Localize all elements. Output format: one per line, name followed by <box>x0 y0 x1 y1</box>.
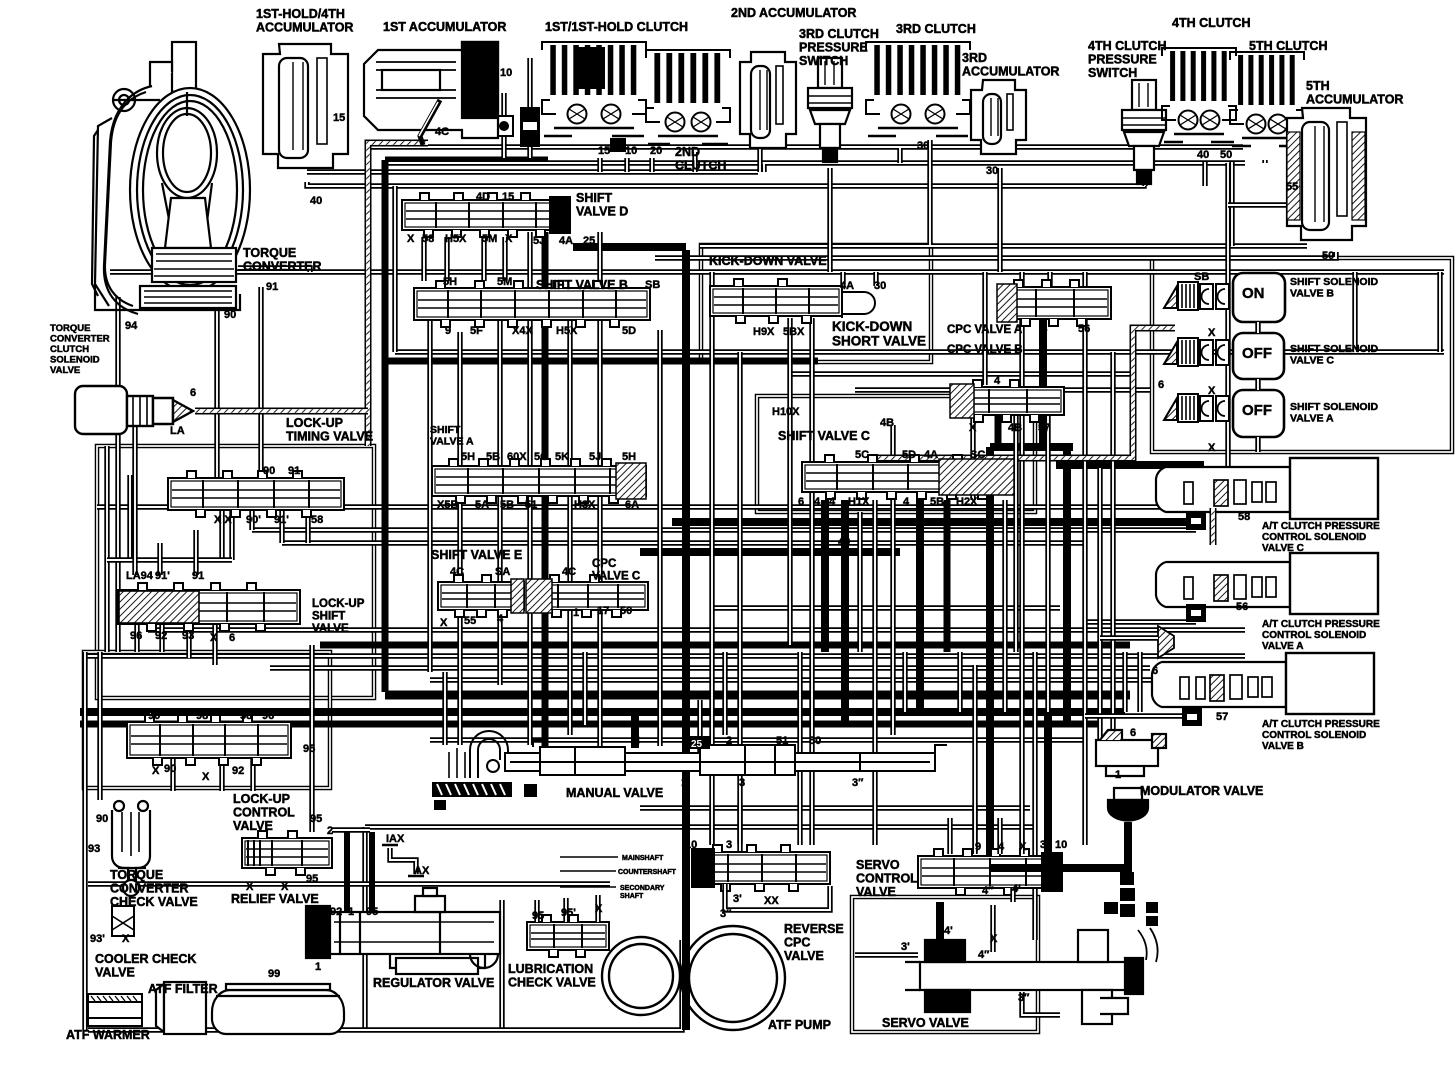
wire 6 cone link <box>1100 635 1158 640</box>
svg-text:SA: SA <box>495 566 510 578</box>
wire 5th acc y258 <box>655 252 1336 258</box>
svg-text:90: 90 <box>224 309 236 321</box>
svg-text:2: 2 <box>726 735 732 747</box>
svg-text:91: 91 <box>266 281 278 293</box>
svg-text:3RD CLUTCH: 3RD CLUTCH <box>896 22 976 36</box>
svg-text:98: 98 <box>196 710 208 722</box>
wire x395 <box>392 186 397 352</box>
lock-up shift valve <box>118 583 300 631</box>
svg-text:4: 4 <box>829 496 836 508</box>
wire y374 <box>788 371 1133 376</box>
svg-text:SB: SB <box>645 279 660 291</box>
svg-text:3″: 3″ <box>1018 992 1030 1004</box>
svg-text:MANUAL VALVE: MANUAL VALVE <box>566 786 663 800</box>
wire 57 check link <box>1085 713 1182 718</box>
svg-text:CPC VALVE A: CPC VALVE A <box>947 324 1022 336</box>
svg-text:4C: 4C <box>562 566 576 578</box>
wire x585 <box>582 652 587 725</box>
svg-text:2: 2 <box>327 825 333 837</box>
svg-text:90: 90 <box>164 763 176 775</box>
secondary shaft line <box>560 886 616 888</box>
svg-text:AX: AX <box>414 865 430 877</box>
wire luc b down <box>219 758 224 791</box>
wire reg 95 stub <box>369 832 375 912</box>
wire stub servo 10 thick <box>1044 712 1052 854</box>
shift solenoid enclosure box <box>1152 258 1452 452</box>
svg-text:3: 3 <box>739 777 745 789</box>
svg-text:X: X <box>505 233 513 245</box>
svg-text:15: 15 <box>502 191 514 203</box>
svg-text:51: 51 <box>776 735 788 747</box>
wire x460 <box>457 332 462 745</box>
svg-text:25: 25 <box>583 235 595 247</box>
svg-text:1ST-HOLD/4THACCUMULATOR: 1ST-HOLD/4THACCUMULATOR <box>256 7 353 35</box>
svg-text:H1X: H1X <box>848 496 870 508</box>
svg-text:X: X <box>440 617 448 629</box>
svg-text:58: 58 <box>240 710 252 722</box>
wire x700dn <box>697 700 702 762</box>
wire x725 <box>722 652 727 735</box>
svg-text:10: 10 <box>1055 839 1067 851</box>
svg-text:40: 40 <box>310 195 322 207</box>
wire stub 5th 50 <box>1262 160 1267 163</box>
svg-text:90': 90' <box>246 514 261 526</box>
wire scv 4' stub <box>1010 888 1015 902</box>
svg-text:3': 3' <box>733 893 742 905</box>
reverse CPC valve <box>692 845 830 891</box>
wire stub 4th 40 <box>1202 162 1207 186</box>
svg-text:50: 50 <box>1322 250 1334 262</box>
wire x1355 <box>1352 272 1357 352</box>
svg-text:OFF: OFF <box>1242 345 1272 362</box>
cooler check valve <box>112 906 134 936</box>
shift valve C <box>802 455 1014 499</box>
svg-text:95: 95 <box>366 906 378 918</box>
svg-text:51: 51 <box>525 499 537 511</box>
svg-text:2ND ACCUMULATOR: 2ND ACCUMULATOR <box>731 6 856 20</box>
wire x445 <box>442 672 447 745</box>
wire x790 <box>787 318 792 645</box>
svg-text:KICK-DOWNSHORT VALVE: KICK-DOWNSHORT VALVE <box>832 319 926 349</box>
svg-text:4: 4 <box>903 496 910 508</box>
svg-text:4″: 4″ <box>978 949 990 961</box>
wire IAX <box>390 848 416 874</box>
svg-text:1: 1 <box>348 906 354 918</box>
svg-text:MODULATOR VALVE: MODULATOR VALVE <box>1140 784 1263 798</box>
wire thick x845 <box>841 500 849 725</box>
wire x960 <box>957 652 962 712</box>
svg-text:X: X <box>152 765 160 777</box>
wire thick x947 <box>944 500 951 652</box>
svg-text:X: X <box>1208 385 1216 397</box>
svg-text:6: 6 <box>190 387 196 399</box>
svg-text:9: 9 <box>445 325 451 337</box>
svg-text:95: 95 <box>532 910 544 922</box>
wire servo 3'' down <box>1022 992 1060 1015</box>
svg-text:92: 92 <box>232 765 244 777</box>
svg-text:90: 90 <box>263 465 275 477</box>
relief valve <box>242 831 332 875</box>
shift solenoid valve A solenoid <box>1164 394 1229 422</box>
wire thick y552 <box>640 548 900 556</box>
svg-text:95: 95 <box>303 743 315 755</box>
wire x800 <box>797 652 802 845</box>
shift valve B <box>414 281 650 327</box>
svg-text:57: 57 <box>1216 711 1228 723</box>
wire 91' up <box>157 543 162 575</box>
svg-text:X: X <box>1208 442 1216 454</box>
svg-text:REGULATOR VALVE: REGULATOR VALVE <box>373 976 494 990</box>
wire stub 3rd clutch 30 <box>897 148 902 163</box>
wire left x85 <box>82 652 87 1030</box>
wire thick 4 cpcA down <box>1039 319 1047 447</box>
wire stub servo 4 <box>997 818 1002 854</box>
svg-text:LUBRICATIONCHECK VALVE: LUBRICATIONCHECK VALVE <box>508 962 596 990</box>
wire lub X stub <box>595 895 600 922</box>
svg-text:94: 94 <box>125 320 138 332</box>
check valve 10 ball <box>496 116 513 136</box>
lock-up control valve enclosure box <box>84 652 330 788</box>
svg-text:X: X <box>281 881 289 893</box>
svg-text:X4X: X4X <box>512 325 533 337</box>
wire y622 <box>1085 619 1196 624</box>
wire x1048 <box>1045 468 1050 712</box>
wire y543 <box>282 540 1085 545</box>
svg-text:5M: 5M <box>497 276 512 288</box>
countershaft line <box>560 870 616 872</box>
svg-text:92: 92 <box>330 906 342 918</box>
wire x875 <box>872 500 877 845</box>
svg-text:91': 91' <box>274 514 289 526</box>
svg-text:H5X: H5X <box>445 233 467 245</box>
wire servo X <box>990 905 995 952</box>
A/T clutch pressure control solenoid valve A <box>1156 553 1378 614</box>
1st-hold/4th accumulator <box>263 44 348 168</box>
wire x712 <box>709 272 714 845</box>
wire servo 4' thick <box>936 902 944 950</box>
svg-text:4A: 4A <box>559 235 573 247</box>
lock-up control valve <box>127 715 291 765</box>
svg-text:X: X <box>246 881 254 893</box>
svg-text:H10X: H10X <box>772 406 800 418</box>
A/T clutch pressure control solenoid valve C <box>1156 458 1378 519</box>
shift solenoid valve A box <box>1233 390 1284 437</box>
svg-text:91: 91 <box>192 570 204 582</box>
wire top y172 <box>307 169 758 174</box>
svg-text:XX: XX <box>764 895 779 907</box>
wire x430 <box>427 320 432 672</box>
wire hatch stub 58 <box>1210 508 1217 545</box>
svg-text:4A: 4A <box>840 280 854 292</box>
svg-text:SHIFT VALVE B: SHIFT VALVE B <box>536 278 628 292</box>
svg-text:4D: 4D <box>476 191 490 203</box>
wire timing 90' down <box>249 510 254 530</box>
wire cpcB 4B down <box>1013 415 1018 652</box>
svg-text:96: 96 <box>130 630 142 642</box>
port 25 box manual valve <box>688 736 710 749</box>
regulator valve <box>306 888 500 974</box>
CPC valve C <box>526 575 648 617</box>
wire thick y361 <box>383 358 818 365</box>
wire x1085 <box>1082 320 1087 845</box>
wire x500 <box>497 320 502 685</box>
wire servo 3' in <box>855 952 918 957</box>
wire timing X2 down <box>229 510 234 560</box>
wire x930 3rd clutch <box>927 140 932 245</box>
4th clutch <box>1162 48 1236 142</box>
wire x1440 <box>1437 272 1442 352</box>
wire thick x635 stub <box>631 712 639 748</box>
svg-text:4B: 4B <box>880 417 894 429</box>
wire stub 2nd acc <box>761 164 766 172</box>
2nd clutch <box>646 50 730 144</box>
wire stub cpcA b <box>1047 272 1052 287</box>
svg-text:95: 95 <box>306 873 318 885</box>
svg-text:SB: SB <box>1194 271 1209 283</box>
svg-text:4: 4 <box>998 841 1005 853</box>
ATF strainer <box>212 984 344 1034</box>
wire y608 <box>710 605 1060 610</box>
wire cpcB 57 down <box>1045 415 1050 468</box>
svg-text:4: 4 <box>1041 323 1048 335</box>
svg-text:6: 6 <box>1130 727 1136 739</box>
svg-text:5H: 5H <box>443 276 457 288</box>
manual valve detent <box>432 782 537 810</box>
svg-text:1: 1 <box>573 607 579 619</box>
svg-text:4': 4' <box>944 925 953 937</box>
svg-text:15: 15 <box>598 145 610 157</box>
wire thick x686 <box>682 250 690 1030</box>
svg-text:X: X <box>969 422 977 434</box>
svg-text:4A: 4A <box>924 449 938 461</box>
wire x1005dn <box>1002 500 1007 712</box>
svg-text:4': 4' <box>1012 883 1021 895</box>
wire y884 <box>88 881 610 886</box>
svg-text:IAX: IAX <box>386 833 405 845</box>
svg-text:5D: 5D <box>902 449 916 461</box>
wire x312 95 <box>309 645 314 832</box>
kick-down short valve piston <box>842 288 875 318</box>
wire y507 long <box>97 504 1245 509</box>
wire timing X down <box>219 510 224 560</box>
svg-text:57: 57 <box>1038 422 1050 434</box>
svg-text:4: 4 <box>497 613 504 625</box>
torque converter <box>92 42 250 314</box>
wire left x100 <box>97 652 102 800</box>
svg-text:5A: 5A <box>475 499 489 511</box>
shift valve E <box>438 575 524 617</box>
wire x975 <box>972 665 977 852</box>
check valve joint 58 <box>1186 512 1206 530</box>
shift solenoid valve B box <box>1233 273 1285 322</box>
wire y272 long <box>110 269 1444 274</box>
wire top y163 <box>387 160 1245 165</box>
wire timing 91' down <box>279 510 284 543</box>
lock-up valves enclosure box <box>97 446 374 698</box>
1st accumulator <box>364 42 498 145</box>
torque converter clutch solenoid valve <box>75 386 193 434</box>
wire top y147 <box>368 144 1243 149</box>
wire stub 2nd clutch <box>692 152 697 172</box>
svg-text:20: 20 <box>650 145 662 157</box>
wire 10 check b <box>527 58 532 158</box>
svg-text:X: X <box>210 632 218 644</box>
wire sol C-A stub <box>1255 379 1260 390</box>
modulator valve <box>1096 730 1166 821</box>
AX tick <box>408 875 424 878</box>
svg-text:58: 58 <box>1238 511 1250 523</box>
ATF warmer <box>88 994 142 1026</box>
svg-text:1ST ACCUMULATOR: 1ST ACCUMULATOR <box>383 20 506 34</box>
wire thick y160 <box>385 157 548 164</box>
shift valve D <box>402 193 570 237</box>
svg-text:5D: 5D <box>622 325 636 337</box>
5th clutch <box>1230 52 1304 146</box>
svg-text:5M: 5M <box>482 233 497 245</box>
svg-text:ATF WARMER: ATF WARMER <box>66 1028 150 1042</box>
1st/1st-hold clutch <box>542 42 646 136</box>
svg-text:1: 1 <box>315 961 321 973</box>
ATF pump circle big <box>681 926 785 1030</box>
wire stub svD 58 <box>421 237 426 281</box>
wire sol B-C stub <box>1255 322 1260 333</box>
wire timing 58 down <box>305 510 310 543</box>
shift solenoid valve C box <box>1233 333 1284 379</box>
wire bottom y1030 <box>88 940 682 1030</box>
svg-text:5K: 5K <box>555 451 569 463</box>
wire thick y712 <box>80 708 1125 716</box>
wire y808 <box>640 805 1030 810</box>
wire thick y695 <box>385 691 1130 700</box>
wire x812 <box>809 318 814 845</box>
svg-text:15: 15 <box>333 112 345 124</box>
wire x985 cpcB <box>982 272 987 385</box>
wire stub 4th 50 <box>1229 162 1234 246</box>
wire hatch 4C-LA x368 <box>368 143 428 446</box>
svg-text:X: X <box>1208 327 1216 339</box>
svg-text:1ST/1ST-HOLD CLUTCH: 1ST/1ST-HOLD CLUTCH <box>545 20 688 34</box>
svg-text:90': 90' <box>148 710 163 722</box>
wire thick y645 <box>320 642 1130 649</box>
svg-text:95: 95 <box>310 813 322 825</box>
svg-text:6: 6 <box>229 632 235 644</box>
wire thick x1067 <box>1063 447 1071 724</box>
4th clutch pressure switch <box>1122 80 1166 184</box>
shift solenoid valve B solenoid <box>1164 282 1229 310</box>
wire thick y724 <box>80 721 1100 728</box>
wire x905 <box>902 652 907 712</box>
svg-text:6: 6 <box>1158 379 1164 391</box>
wire stub clutch 10 <box>624 158 629 172</box>
wire x1035 <box>1032 652 1037 940</box>
wire thick x920 <box>916 500 924 712</box>
wire stub svD 5M <box>481 237 486 281</box>
wire y630 <box>148 627 1245 632</box>
svg-text:X: X <box>202 771 210 783</box>
wire mod L <box>990 822 1128 868</box>
wire lus X down <box>212 624 217 665</box>
svg-text:10: 10 <box>625 145 637 157</box>
wire stub rcpc 3 <box>737 806 742 844</box>
svg-text:50: 50 <box>1220 149 1232 161</box>
svg-text:X: X <box>595 903 603 915</box>
wire stub svD H5X <box>444 237 449 281</box>
wire stub kd 30 <box>873 272 878 286</box>
wire x830 pswitch <box>827 168 832 272</box>
A/T clutch pressure control solenoid valve B <box>1152 653 1374 714</box>
svg-text:56: 56 <box>1078 323 1090 335</box>
check valve joint 57 <box>1182 708 1202 726</box>
wire 91 up <box>193 530 198 575</box>
wire stub servo 9 <box>972 806 977 854</box>
svg-text:4C: 4C <box>435 126 449 138</box>
svg-text:91': 91' <box>155 570 170 582</box>
wire x893 4B <box>890 425 895 735</box>
3rd accumulator <box>971 80 1026 154</box>
svg-text:5F: 5F <box>470 325 483 337</box>
wire x760 <box>757 140 762 172</box>
wire 10 check a <box>501 93 506 158</box>
wire x1140 <box>1137 652 1142 712</box>
wire x1228 <box>1225 163 1230 507</box>
wire stub rcpc 10 <box>709 806 714 844</box>
svg-text:92: 92 <box>155 630 167 642</box>
wire stub cpcA c <box>1082 272 1087 287</box>
wire 91 tc out <box>238 268 310 272</box>
servo valve <box>905 928 1158 1024</box>
wire x130 box <box>127 475 132 560</box>
svg-text:5G: 5G <box>534 451 549 463</box>
svg-text:50: 50 <box>809 735 821 747</box>
wire 91 vertical <box>258 287 263 478</box>
svg-text:MAINSHAFT: MAINSHAFT <box>622 855 664 862</box>
5th accumulator <box>1287 108 1366 240</box>
wire y656 <box>85 653 1245 658</box>
svg-text:KICK-DOWN VALVE: KICK-DOWN VALVE <box>709 254 827 268</box>
wire 90 vertical <box>214 300 219 478</box>
svg-text:17: 17 <box>597 605 609 617</box>
wire LA up <box>132 411 137 575</box>
wire luc 90' up <box>147 712 152 722</box>
wire y827 long <box>365 824 1037 829</box>
svg-text:93: 93 <box>88 843 100 855</box>
servo valve small boxes <box>1104 872 1158 926</box>
wire x740 <box>737 352 742 852</box>
manual valve <box>449 731 947 778</box>
svg-text:58: 58 <box>311 514 323 526</box>
svg-text:5B: 5B <box>930 496 944 508</box>
shift valve A <box>432 459 646 503</box>
svg-text:4TH CLUTCH: 4TH CLUTCH <box>1172 16 1250 30</box>
svg-text:6: 6 <box>798 496 804 508</box>
svg-text:95': 95' <box>561 907 576 919</box>
svg-text:6: 6 <box>1152 665 1158 677</box>
mainshaft line <box>560 856 618 858</box>
svg-text:5B: 5B <box>486 451 500 463</box>
svg-text:40: 40 <box>1197 149 1209 161</box>
wire lub 95 stub <box>534 900 539 922</box>
svg-text:6A: 6A <box>625 499 639 511</box>
shift solenoid valve C solenoid <box>1164 338 1229 366</box>
shift valve C enclosure box <box>757 396 1035 512</box>
svg-text:LA94: LA94 <box>126 570 154 582</box>
torque converter check valve <box>112 801 150 896</box>
wire thick 25 y247 <box>573 243 686 251</box>
svg-text:1: 1 <box>1115 769 1121 781</box>
svg-text:5H: 5H <box>461 451 475 463</box>
wire stub servo 3 <box>947 818 952 854</box>
wire y390 <box>855 387 1150 392</box>
